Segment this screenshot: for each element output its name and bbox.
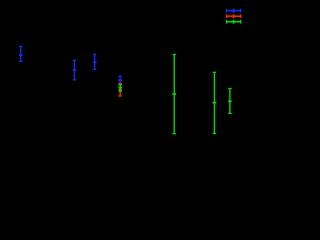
green errorbar mid-right — [213, 72, 217, 133]
green errorbar right — [228, 88, 232, 113]
legend entry blue — [226, 9, 241, 13]
red errorbar (cluster middle) — [118, 84, 122, 96]
blue errorbar 2 — [73, 60, 77, 80]
blue errorbar 3 — [93, 54, 97, 69]
legend entry green — [226, 20, 241, 24]
blue errorbar 1 — [19, 46, 23, 61]
blue errorbar 4 (cluster top) — [118, 76, 122, 83]
legend entry red — [226, 14, 241, 18]
green errorbar (cluster, overlapping red) — [119, 85, 123, 91]
green errorbar tall — [172, 54, 176, 133]
